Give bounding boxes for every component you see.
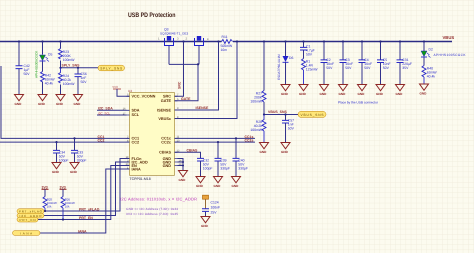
ground under C4: [358, 85, 367, 91]
ground under C42: [15, 95, 24, 101]
wire IANA: [40, 169, 130, 233]
ground under C56: [74, 95, 83, 101]
svg-text:GND => I2C Address (7-bit): 0x: GND => I2C Address (7-bit): 0x34: [126, 207, 178, 211]
wire IC GND pins: [178, 159, 184, 171]
svg-text:CBIAS: CBIAS: [187, 149, 199, 153]
LED D2: [423, 42, 425, 52]
svg-text:ISENSE: ISENSE: [196, 106, 210, 110]
svg-text:Place by the USB connector: Place by the USB connector: [338, 100, 379, 104]
capacitor C40: [235, 138, 237, 158]
svg-text:CBIAS: CBIAS: [159, 151, 171, 155]
ground under C3: [339, 85, 348, 91]
svg-text:50V: 50V: [345, 66, 352, 70]
svg-text:USB PD Protection: USB PD Protection: [128, 12, 176, 19]
svg-text:3V3: 3V3: [42, 185, 48, 189]
svg-text:GND: GND: [196, 184, 204, 188]
capacitor C31: [399, 42, 401, 60]
ground under R1: [299, 85, 308, 91]
svg-text:PRT_EN: PRT_EN: [79, 216, 93, 220]
LED D5: [42, 42, 44, 95]
port VBUS_SNS: [298, 111, 326, 117]
wire ISENSE net: [175, 42, 219, 111]
resistor R40: [422, 66, 426, 85]
svg-text:IANA: IANA: [132, 167, 142, 171]
svg-text:GND: GND: [74, 102, 82, 106]
wire CBIAS: [175, 152, 201, 158]
svg-text:100nF: 100nF: [211, 205, 221, 209]
svg-text:330pF: 330pF: [220, 166, 230, 170]
ground under D6: [281, 85, 290, 91]
svg-text:10k: 10k: [47, 205, 52, 209]
capacitor C56: [77, 68, 79, 95]
svg-text:GND: GND: [320, 92, 328, 96]
svg-text:PRT_EN: PRT_EN: [20, 218, 36, 222]
ground under C34: [52, 163, 61, 169]
resistor R11 (shunt in bus): [222, 40, 233, 44]
IC U3 TCPP01-M18: [130, 93, 175, 176]
pin numbers Q3: [158, 38, 209, 42]
svg-text:5V0: 5V0: [113, 85, 119, 89]
svg-text:GND: GND: [358, 92, 366, 96]
svg-text:U3: U3: [128, 89, 132, 93]
wire SPLY_SNS: [61, 67, 99, 69]
capacitor C4: [361, 42, 363, 60]
svg-text:GATE: GATE: [181, 97, 191, 101]
svg-text:25V: 25V: [211, 210, 218, 214]
svg-text:APHHS1005CGCK: APHHS1005CGCK: [34, 50, 38, 78]
svg-text:SCL: SCL: [132, 113, 140, 117]
svg-text:50V: 50V: [383, 66, 390, 70]
capacitor C42: [18, 42, 20, 95]
svg-text:40.4k: 40.4k: [45, 82, 54, 86]
svg-text:330pF: 330pF: [238, 166, 248, 170]
svg-text:GND: GND: [201, 224, 209, 228]
ground under C57: [281, 143, 290, 149]
wire VBUS_SNS: [264, 114, 298, 116]
svg-text:100mW: 100mW: [250, 128, 262, 132]
svg-text:100pF: 100pF: [59, 158, 69, 162]
svg-text:TCPP01-M18: TCPP01-M18: [130, 177, 151, 181]
wire CC2c right: [175, 141, 256, 143]
svg-text:GATE: GATE: [161, 99, 172, 103]
diode D6 ESD: [285, 42, 287, 57]
test point TP above C124: [203, 195, 209, 199]
capacitor C1: [303, 42, 305, 48]
svg-text:ISENSE: ISENSE: [157, 108, 171, 112]
port PRT_xFLAG: [17, 209, 44, 214]
svg-text:R11: R11: [222, 35, 228, 39]
svg-text:APHHS1005CGCK: APHHS1005CGCK: [434, 53, 467, 57]
port SPLY_SNS: [98, 65, 125, 71]
svg-text:3V3 => I2C Address (7-bit): 0x: 3V3 => I2C Address (7-bit): 0x35: [126, 212, 178, 216]
svg-text:GND: GND: [376, 92, 384, 96]
svg-text:GND: GND: [52, 170, 60, 174]
IC pin names right: [157, 95, 171, 168]
ground under R24: [56, 95, 65, 101]
wire GATE net: [175, 64, 199, 100]
wire gate link Q3: [169, 46, 199, 64]
capacitor C57: [285, 115, 287, 121]
svg-text:50V: 50V: [306, 52, 313, 56]
wire EN / PRT_EN: [38, 166, 130, 220]
transistor Q3B: [195, 38, 204, 46]
ground under R40: [420, 84, 429, 90]
svg-text:330pF: 330pF: [77, 158, 87, 162]
svg-text:SPLY_SNS: SPLY_SNS: [62, 64, 81, 68]
ground under R42: [38, 95, 47, 101]
svg-text:GND: GND: [232, 184, 240, 188]
port IANA: [13, 231, 41, 236]
svg-text:D2: D2: [429, 47, 433, 51]
wire CC2 left: [0, 141, 130, 143]
resistor R1: [302, 59, 306, 85]
wire VCC_VCONN: [117, 89, 130, 96]
port I2C_ADDR: [17, 213, 44, 218]
svg-text:GND: GND: [70, 170, 78, 174]
svg-text:D6: D6: [289, 56, 293, 60]
IC pin numbers: [123, 94, 129, 170]
wire SRC net: [175, 42, 184, 97]
ground under C33: [70, 163, 79, 169]
ground under C124: [201, 217, 210, 223]
svg-text:100mW: 100mW: [63, 58, 75, 62]
svg-text:SRC: SRC: [178, 81, 182, 89]
svg-text:100pF: 100pF: [203, 166, 213, 170]
svg-text:50V: 50V: [288, 126, 295, 130]
resistor R25: [43, 197, 47, 212]
ground IC: [179, 171, 188, 177]
svg-text:ESDA7P60-1U1M: ESDA7P60-1U1M: [277, 54, 281, 80]
capacitor C2: [323, 42, 325, 60]
svg-text:GND: GND: [299, 92, 307, 96]
wire VBUSc net: [175, 42, 238, 119]
svg-text:50V: 50V: [24, 72, 31, 76]
svg-text:50V: 50V: [81, 80, 88, 84]
svg-text:VBUS: VBUS: [443, 35, 455, 40]
svg-text:SPLY_SNS: SPLY_SNS: [100, 67, 122, 71]
resistor R42: [41, 72, 45, 83]
svg-text:CC2: CC2: [132, 140, 140, 144]
wire I2C_ADD / I2C_ADDR: [44, 162, 130, 216]
ground under C2: [320, 85, 329, 91]
svg-text:GND: GND: [281, 150, 289, 154]
resistor R28: [262, 115, 266, 143]
svg-text:10k: 10k: [65, 205, 70, 209]
svg-text:GND: GND: [281, 92, 289, 96]
resistor R23: [60, 42, 62, 95]
svg-text:50V: 50V: [326, 66, 333, 70]
ground under C31: [396, 85, 405, 91]
svg-text:GND: GND: [179, 178, 187, 182]
svg-text:GND: GND: [214, 184, 222, 188]
svg-text:CC2s: CC2s: [245, 139, 254, 143]
svg-text:D5: D5: [48, 53, 52, 57]
wire main VBUS bus: [0, 41, 452, 43]
svg-text:GND: GND: [339, 92, 347, 96]
svg-text:GND: GND: [396, 92, 404, 96]
svg-text:40.4k: 40.4k: [427, 75, 436, 79]
svg-text:GND: GND: [420, 91, 428, 95]
svg-text:GND: GND: [260, 150, 268, 154]
capacitor C33: [74, 138, 76, 150]
capacitor C32: [197, 158, 204, 161]
svg-text:I2C Address: 011010xb, x = I2C: I2C Address: 011010xb, x = I2C_ADDR: [120, 196, 197, 201]
capacitor C124: [202, 209, 209, 212]
IC pin names left: [132, 95, 156, 172]
svg-text:SRC: SRC: [163, 95, 171, 99]
svg-text:VBUS_SNS: VBUS_SNS: [301, 113, 324, 117]
svg-text:IANA: IANA: [20, 232, 32, 236]
capacitor C39: [217, 142, 219, 158]
svg-text:GND: GND: [38, 102, 46, 106]
svg-text:VBUS_SNS: VBUS_SNS: [268, 110, 288, 114]
svg-text:125mW: 125mW: [306, 68, 318, 72]
capacitor C5: [380, 42, 382, 60]
wire CC1c right: [175, 137, 256, 139]
svg-text:35V: 35V: [402, 66, 409, 70]
svg-text:GND: GND: [15, 102, 23, 106]
svg-text:50V: 50V: [364, 66, 371, 70]
ground under C5: [376, 85, 385, 91]
svg-text:GND: GND: [163, 164, 172, 168]
capacitor C34: [56, 142, 58, 150]
svg-text:10m: 10m: [221, 48, 228, 52]
svg-text:100mW: 100mW: [250, 100, 262, 104]
svg-text:100mW: 100mW: [63, 82, 75, 86]
resistor R27: [263, 42, 265, 91]
svg-text:PRT_xFLAG: PRT_xFLAG: [79, 208, 100, 212]
transistor Q3A: [165, 38, 174, 46]
wire CC1 left: [1, 66, 130, 138]
svg-text:CC2: CC2: [98, 139, 105, 143]
resistor R24: [59, 68, 63, 83]
svg-text:GND: GND: [56, 102, 64, 106]
ground under R28: [260, 143, 269, 149]
ground under C32: [196, 177, 205, 183]
capacitor C3: [342, 42, 344, 60]
port PRT_EN: [17, 217, 38, 222]
svg-text:VCC_VCONN: VCC_VCONN: [132, 95, 156, 99]
svg-text:VBUSc: VBUSc: [158, 117, 171, 121]
ground under C39: [214, 177, 223, 183]
svg-text:IANA: IANA: [78, 229, 87, 233]
svg-text:C124: C124: [211, 200, 219, 204]
IC pin stubs: [127, 96, 178, 169]
node gate junction: [197, 63, 199, 65]
ground under C40: [232, 177, 241, 183]
wire FLGn / PRT_xFLAG: [44, 159, 130, 212]
resistor R26: [61, 197, 65, 220]
svg-text:3V3: 3V3: [60, 185, 66, 189]
svg-text:SQJQ804E-T1_GE3: SQJQ804E-T1_GE3: [160, 31, 188, 35]
junction dots on bus: [18, 40, 425, 42]
svg-text:CC2c: CC2c: [161, 140, 171, 144]
